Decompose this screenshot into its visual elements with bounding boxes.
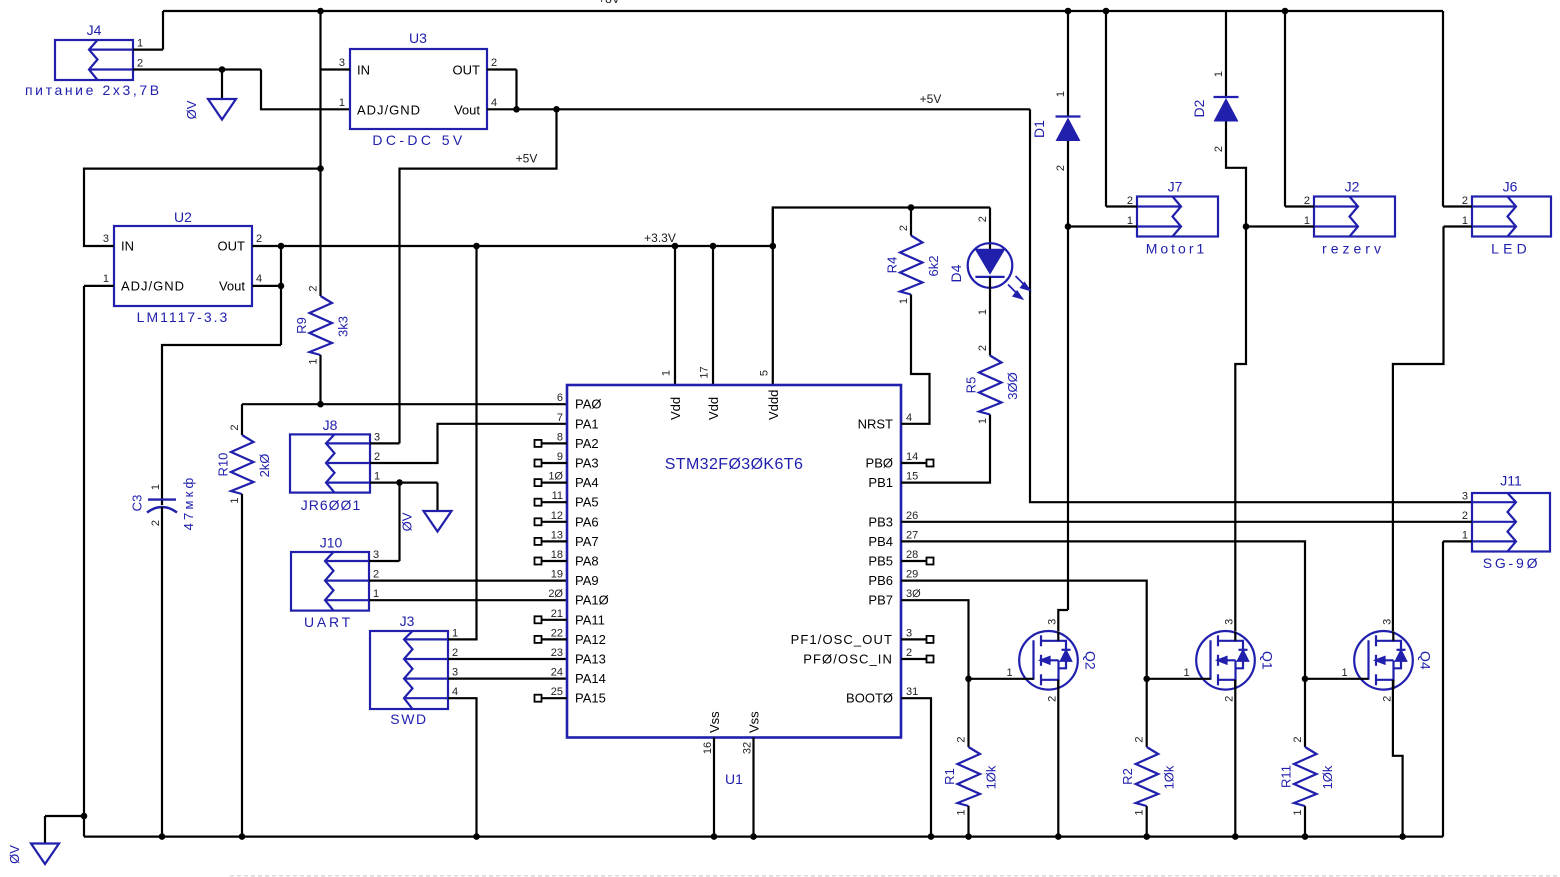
wire J3 pin4 to gnd bus — [448, 698, 477, 836]
svg-text:15: 15 — [906, 471, 918, 483]
svg-text:2: 2 — [491, 57, 497, 69]
svg-text:U2: U2 — [174, 209, 192, 225]
svg-text:5: 5 — [758, 370, 770, 376]
svg-text:2: 2 — [1382, 696, 1394, 702]
+5V branch to J8 — [400, 109, 557, 443]
svg-text:3: 3 — [1462, 491, 1468, 503]
svg-text:4: 4 — [256, 273, 262, 285]
wire R2 top — [1146, 679, 1148, 747]
wire U3 OUT pin2 — [487, 68, 517, 70]
wire Q4 source to bus — [1393, 680, 1403, 837]
svg-text:1: 1 — [373, 588, 379, 600]
stub U1 PA15 — [542, 697, 568, 699]
no-connect PBØ — [927, 460, 934, 467]
wire PA0 net — [242, 403, 567, 405]
wire J4 pin1 to +8V — [133, 48, 163, 50]
svg-text:ØV: ØV — [184, 100, 199, 119]
wire Q1 gate — [1147, 678, 1211, 680]
connector J10 body — [291, 552, 369, 611]
stub U1 PA4 — [542, 482, 568, 484]
svg-text:1: 1 — [1292, 809, 1304, 815]
wire PB4 to Q4 gate — [901, 541, 1305, 678]
svg-text:3: 3 — [1382, 619, 1394, 625]
node D2 / J2 pin1 — [1243, 223, 1250, 230]
stub U1 PA2 — [542, 442, 568, 444]
node +8V / U2 IN branch — [317, 165, 324, 172]
svg-text:PA6: PA6 — [575, 514, 599, 529]
svg-text:Vout: Vout — [454, 103, 480, 118]
wire J8 pin3 +5V — [370, 442, 400, 444]
svg-text:1: 1 — [229, 497, 241, 503]
svg-text:PA4: PA4 — [575, 475, 599, 490]
svg-text:1: 1 — [1213, 71, 1225, 77]
svg-text:1: 1 — [1341, 667, 1347, 679]
wire to ground — [221, 70, 223, 100]
ground bus 0V — [83, 816, 85, 837]
svg-text:1: 1 — [1462, 530, 1468, 542]
svg-text:2: 2 — [452, 647, 458, 659]
svg-text:1: 1 — [1134, 809, 1146, 815]
svg-text:3ØØ: 3ØØ — [1005, 372, 1020, 399]
wire U3 Vout +5V rail — [487, 108, 1030, 110]
transistor Q2 symbol — [1019, 631, 1078, 690]
wire R1 bottom — [967, 806, 969, 837]
wire R11 bottom — [1304, 806, 1306, 837]
svg-text:1: 1 — [452, 627, 458, 639]
node R9/R10/PA0 — [317, 401, 324, 408]
svg-text:7: 7 — [557, 412, 563, 424]
svg-text:J2: J2 — [1345, 179, 1360, 195]
svg-text:ØV: ØV — [7, 845, 22, 864]
svg-text:2Ø: 2Ø — [548, 588, 563, 600]
svg-text:Vout: Vout — [219, 279, 245, 294]
wire D1 anode to Q2 drain — [1067, 141, 1069, 610]
svg-text:2: 2 — [977, 345, 989, 351]
wire J6 pin2 — [1443, 205, 1472, 207]
svg-text:3: 3 — [339, 57, 345, 69]
svg-text:1: 1 — [1304, 215, 1310, 227]
wire C3 to ground bus — [161, 507, 163, 837]
wire R10 top — [241, 404, 243, 435]
svg-text:2: 2 — [229, 424, 241, 430]
microcontroller U1 STM32F030K6T6 — [567, 385, 901, 738]
wire U3 IN pin3 — [321, 68, 351, 70]
svg-text:R10: R10 — [216, 453, 231, 477]
wire to Q1 drain — [1235, 227, 1246, 632]
wire Q2 gate — [969, 678, 1034, 680]
node D1 / J7 pin1 — [1065, 223, 1072, 230]
svg-text:PA13: PA13 — [575, 652, 606, 667]
wire R1 top — [967, 679, 969, 747]
svg-text:J7: J7 — [1168, 179, 1183, 195]
connector J4 body — [55, 40, 133, 80]
wire D2 cathode — [1225, 11, 1227, 97]
svg-text:1: 1 — [308, 358, 320, 364]
svg-text:DC-DC 5V: DC-DC 5V — [372, 132, 465, 148]
no-connect PFØ/OSC_IN — [927, 656, 934, 663]
svg-text:UART: UART — [304, 614, 353, 630]
transistor Q1 symbol — [1196, 631, 1255, 690]
svg-text:1: 1 — [137, 38, 143, 50]
wire +3.3V to C3 — [162, 345, 281, 505]
svg-text:R11: R11 — [1279, 765, 1294, 788]
svg-text:PA1: PA1 — [575, 416, 599, 431]
svg-text:LM1117-3.3: LM1117-3.3 — [137, 309, 230, 325]
wire U2 ADJ/GND to ground — [84, 285, 114, 287]
svg-text:2: 2 — [1224, 696, 1236, 702]
no-connect PF1/OSC_OUT — [927, 636, 934, 643]
resistor R10 body — [231, 435, 254, 494]
svg-text:3: 3 — [373, 549, 379, 561]
svg-text:PF1/OSC_OUT: PF1/OSC_OUT — [791, 632, 893, 647]
svg-text:U3: U3 — [409, 30, 427, 46]
svg-text:1: 1 — [374, 471, 380, 483]
stub U1 PBØ — [901, 462, 927, 464]
Vddd stub pin5 — [772, 208, 774, 386]
node Q1 gate / R2 — [1143, 676, 1150, 683]
svg-text:25: 25 — [551, 686, 563, 698]
+5V wire to J11 — [1030, 109, 1472, 502]
no-connect PA2 — [535, 440, 542, 447]
+3.3V rail — [252, 245, 773, 247]
wire R9 bottom — [319, 355, 321, 404]
regulator U3 DC-DC 5V — [350, 49, 487, 129]
wire to 0V symbol — [45, 815, 84, 817]
svg-text:1: 1 — [1462, 215, 1468, 227]
svg-text:BOOTØ: BOOTØ — [846, 691, 893, 706]
svg-text:32: 32 — [742, 742, 754, 754]
ground 0V bottom-left — [31, 844, 59, 865]
svg-text:Vdd: Vdd — [706, 397, 721, 420]
svg-text:1Øk: 1Øk — [1162, 765, 1177, 789]
svg-text:47мкф: 47мкф — [181, 475, 196, 531]
svg-text:PB1: PB1 — [868, 475, 893, 490]
svg-text:29: 29 — [906, 569, 918, 581]
svg-text:IN: IN — [357, 63, 370, 78]
wire J10 pin3 — [369, 560, 400, 562]
svg-text:3: 3 — [1047, 619, 1059, 625]
svg-text:9: 9 — [557, 451, 563, 463]
no-connect PA5 — [535, 499, 542, 506]
node Q4 gate / R11 — [1302, 676, 1309, 683]
connector J7 body — [1137, 197, 1218, 237]
wire R4 top — [910, 208, 912, 236]
no-connect PA8 — [535, 558, 542, 565]
svg-text:1: 1 — [339, 97, 345, 109]
svg-text:IN: IN — [121, 239, 134, 254]
svg-text:1: 1 — [898, 298, 910, 304]
svg-text:1Øk: 1Øk — [1320, 765, 1335, 789]
svg-text:PAØ: PAØ — [575, 397, 602, 412]
svg-text:1Ø: 1Ø — [548, 471, 563, 483]
capacitor C3 47мкф — [148, 498, 176, 500]
wire Q2 source to bus — [1057, 680, 1059, 837]
svg-text:OUT: OUT — [218, 239, 246, 254]
svg-text:1: 1 — [150, 484, 162, 490]
svg-text:U1: U1 — [725, 771, 743, 787]
svg-text:Q2: Q2 — [1083, 651, 1099, 670]
wire J10 pin1 to PA10 — [369, 599, 567, 601]
stub U1 PF1/OSC_OUT — [901, 638, 927, 640]
stub U1 PA6 — [542, 521, 568, 523]
svg-text:2: 2 — [137, 58, 143, 70]
svg-text:PB6: PB6 — [868, 573, 893, 588]
svg-text:14: 14 — [906, 451, 918, 463]
node J8 pin1 / J10 pin3 — [396, 479, 403, 486]
wire +8V branch to R9 — [319, 11, 321, 296]
svg-text:D1: D1 — [1031, 120, 1047, 138]
svg-text:27: 27 — [906, 529, 918, 541]
svg-text:PA3: PA3 — [575, 456, 599, 471]
svg-text:12: 12 — [551, 510, 563, 522]
svg-text:23: 23 — [551, 647, 563, 659]
wire Q1 source to bus — [1234, 680, 1236, 837]
wire J7 pin2 — [1106, 205, 1137, 207]
svg-text:6: 6 — [557, 392, 563, 404]
svg-text:rezerv: rezerv — [1322, 241, 1385, 257]
svg-text:1: 1 — [977, 418, 989, 424]
connector J6 body — [1472, 197, 1551, 237]
resistor R1 10k — [958, 747, 981, 806]
svg-text:PB4: PB4 — [868, 534, 893, 549]
svg-text:2: 2 — [1304, 195, 1310, 207]
node Q2 gate / R1 — [965, 676, 972, 683]
Vdd stub pin1 — [674, 246, 676, 385]
svg-text:J11: J11 — [1500, 473, 1522, 489]
svg-text:C3: C3 — [130, 495, 145, 512]
wire J2 pin1 — [1246, 225, 1314, 227]
svg-text:+5V: +5V — [516, 152, 538, 166]
svg-text:2: 2 — [1127, 195, 1133, 207]
wire PB6 to Q1 gate — [901, 581, 1147, 679]
svg-text:1: 1 — [1183, 667, 1189, 679]
wire D2 anode — [1226, 122, 1246, 227]
svg-text:Vss: Vss — [747, 711, 762, 733]
no-connect PA6 — [535, 518, 542, 525]
resistor R5 body — [979, 356, 1002, 415]
svg-text:2: 2 — [1047, 696, 1059, 702]
wire J8 pin2 to PA1 — [370, 424, 567, 463]
wire D1 cathode — [1067, 11, 1069, 117]
stub U1 PA7 — [542, 540, 568, 542]
svg-text:2: 2 — [374, 451, 380, 463]
svg-text:3Ø: 3Ø — [906, 588, 921, 600]
no-connect PA12 — [535, 636, 542, 643]
svg-text:13: 13 — [551, 529, 563, 541]
svg-text:JR6ØØ1: JR6ØØ1 — [301, 497, 361, 513]
svg-text:PA2: PA2 — [575, 436, 599, 451]
svg-text:1: 1 — [661, 370, 673, 376]
svg-text:21: 21 — [551, 608, 563, 620]
wire PB3 to J11 pin2 — [901, 521, 1472, 523]
svg-text:ØV: ØV — [400, 512, 415, 531]
svg-text:ADJ/GND: ADJ/GND — [357, 103, 421, 118]
wire J8 pin1 gnd — [370, 482, 438, 484]
svg-text:2: 2 — [373, 569, 379, 581]
svg-text:2: 2 — [956, 736, 968, 742]
stub U1 PFØ/OSC_IN — [901, 658, 927, 660]
svg-text:1: 1 — [103, 273, 109, 285]
ground 0V near J4 — [208, 99, 236, 120]
wire gnd J8-J10 — [398, 483, 400, 561]
svg-text:PA15: PA15 — [575, 691, 606, 706]
ground 0V near J8 — [424, 511, 452, 532]
svg-text:1: 1 — [1055, 91, 1067, 97]
+8V net — [163, 10, 1443, 12]
svg-text:J6: J6 — [1503, 179, 1518, 195]
svg-text:Vddd: Vddd — [766, 390, 781, 420]
LED D4 emission arrows — [1008, 276, 1030, 299]
wire J3 pin3 to PA14 — [448, 677, 567, 679]
resistor R9 body — [310, 296, 333, 355]
svg-text:2: 2 — [906, 647, 912, 659]
svg-text:3: 3 — [1224, 619, 1236, 625]
svg-text:2: 2 — [150, 520, 162, 526]
svg-text:PFØ/OSC_IN: PFØ/OSC_IN — [803, 652, 893, 667]
wire Q4 gate — [1305, 678, 1369, 680]
wire Vss pin32 to bus — [752, 738, 754, 837]
svg-text:1Øk: 1Øk — [984, 765, 999, 789]
svg-text:2kØ: 2kØ — [257, 454, 272, 478]
no-connect PB5 — [927, 558, 934, 565]
svg-text:24: 24 — [551, 667, 563, 679]
svg-text:PA7: PA7 — [575, 534, 599, 549]
svg-text:OUT: OUT — [453, 63, 481, 78]
svg-text:Q4: Q4 — [1418, 651, 1434, 670]
svg-text:D4: D4 — [948, 264, 964, 282]
wire U2 Vout tie — [252, 285, 281, 287]
svg-text:J3: J3 — [400, 613, 415, 629]
connector J11 body — [1472, 493, 1550, 552]
resistor R2 10k — [1136, 747, 1159, 806]
connector J3 body — [370, 631, 448, 709]
svg-text:1: 1 — [1006, 667, 1012, 679]
svg-text:17: 17 — [699, 366, 711, 378]
stub U1 PA3 — [542, 462, 568, 464]
svg-text:+8V: +8V — [598, 0, 620, 6]
svg-text:ADJ/GND: ADJ/GND — [121, 279, 185, 294]
svg-text:J4: J4 — [87, 22, 102, 38]
wire R4 to NRST — [901, 295, 930, 424]
svg-text:PB5: PB5 — [868, 554, 893, 569]
wire R11 top — [1304, 679, 1306, 747]
svg-text:PB3: PB3 — [868, 514, 893, 529]
wire R2 bottom — [1146, 806, 1148, 837]
svg-text:3: 3 — [452, 667, 458, 679]
wire D4 to R5 — [989, 277, 991, 356]
no-connect PA4 — [535, 479, 542, 486]
wire Vss pin16 to bus — [713, 738, 715, 837]
svg-text:8: 8 — [557, 431, 563, 443]
svg-text:3: 3 — [103, 233, 109, 245]
connector J2 body — [1314, 197, 1395, 237]
svg-text:D2: D2 — [1191, 99, 1207, 117]
wire BOOT0 to gnd — [901, 698, 931, 836]
svg-text:PA5: PA5 — [575, 495, 599, 510]
svg-text:2: 2 — [1462, 195, 1468, 207]
svg-text:2: 2 — [1462, 510, 1468, 522]
stub U1 PA8 — [542, 560, 568, 562]
wire J6 pin1 to Q4 drain — [1444, 225, 1473, 227]
no-connect PA7 — [535, 538, 542, 545]
svg-text:28: 28 — [906, 549, 918, 561]
svg-text:3: 3 — [374, 431, 380, 443]
svg-text:PBØ: PBØ — [866, 456, 893, 471]
svg-text:J10: J10 — [320, 535, 343, 551]
svg-text:PA8: PA8 — [575, 554, 599, 569]
svg-text:4: 4 — [452, 686, 458, 698]
svg-text:2: 2 — [898, 225, 910, 231]
svg-text:SG-9Ø: SG-9Ø — [1483, 555, 1541, 571]
svg-text:PA9: PA9 — [575, 573, 599, 588]
svg-text:+3.3V: +3.3V — [644, 231, 676, 245]
svg-text:2: 2 — [1055, 165, 1067, 171]
stub U1 PA11 — [542, 619, 568, 621]
svg-text:2: 2 — [1213, 146, 1225, 152]
wire +8V to U2 IN — [84, 169, 321, 246]
svg-text:R5: R5 — [964, 377, 979, 394]
svg-text:Motor1: Motor1 — [1146, 241, 1208, 257]
svg-text:LED: LED — [1491, 241, 1531, 257]
resistor R4 body — [900, 236, 923, 295]
wire to 0V — [436, 483, 438, 511]
svg-text:NRST: NRST — [858, 416, 893, 431]
svg-text:26: 26 — [906, 510, 918, 522]
node gnd stub — [81, 813, 88, 820]
wire D4 top — [989, 208, 991, 250]
wire J11 pin1 to gnd — [1443, 540, 1472, 542]
svg-text:Q1: Q1 — [1260, 651, 1276, 670]
node J4 pin2 / 0V junction — [219, 66, 226, 73]
wire J2 pin2 — [1285, 205, 1314, 207]
svg-text:R9: R9 — [294, 317, 309, 334]
svg-text:6k2: 6k2 — [926, 256, 941, 277]
svg-text:R1: R1 — [942, 768, 957, 785]
stub U1 PB5 — [901, 560, 927, 562]
wire J4 pin2 to U3 ADJ/GND — [133, 68, 261, 70]
no-connect PA11 — [535, 616, 542, 623]
svg-text:4: 4 — [491, 97, 497, 109]
svg-text:19: 19 — [551, 569, 563, 581]
resistor R11 10k — [1294, 747, 1317, 806]
wire R5 to PB1 — [901, 415, 990, 483]
svg-text:Vss: Vss — [707, 711, 722, 733]
svg-text:2: 2 — [308, 285, 320, 291]
wire J10 pin2 to PA9 — [369, 579, 567, 581]
svg-text:SWD: SWD — [390, 711, 427, 727]
svg-text:PA1Ø: PA1Ø — [575, 593, 609, 608]
Vdd stub pin17 — [712, 246, 714, 385]
svg-text:питание 2x3,7В: питание 2x3,7В — [25, 82, 162, 98]
svg-text:3k3: 3k3 — [336, 316, 351, 337]
svg-text:18: 18 — [551, 549, 563, 561]
svg-text:2: 2 — [256, 233, 262, 245]
svg-text:R4: R4 — [885, 257, 900, 274]
svg-text:+5V: +5V — [920, 92, 942, 106]
svg-text:1: 1 — [956, 809, 968, 815]
stub U1 PA5 — [542, 501, 568, 503]
faint page edge — [230, 875, 1560, 877]
wire J3 pin1 to +3.3V — [448, 246, 477, 639]
svg-text:Vdd: Vdd — [668, 397, 683, 420]
wire R10 bottom to bus — [241, 494, 243, 837]
svg-text:11: 11 — [552, 490, 563, 502]
svg-text:2: 2 — [1134, 736, 1146, 742]
svg-text:16: 16 — [702, 742, 714, 754]
svg-text:R2: R2 — [1120, 768, 1135, 785]
svg-text:J8: J8 — [323, 417, 338, 433]
stub U1 PA12 — [542, 638, 568, 640]
